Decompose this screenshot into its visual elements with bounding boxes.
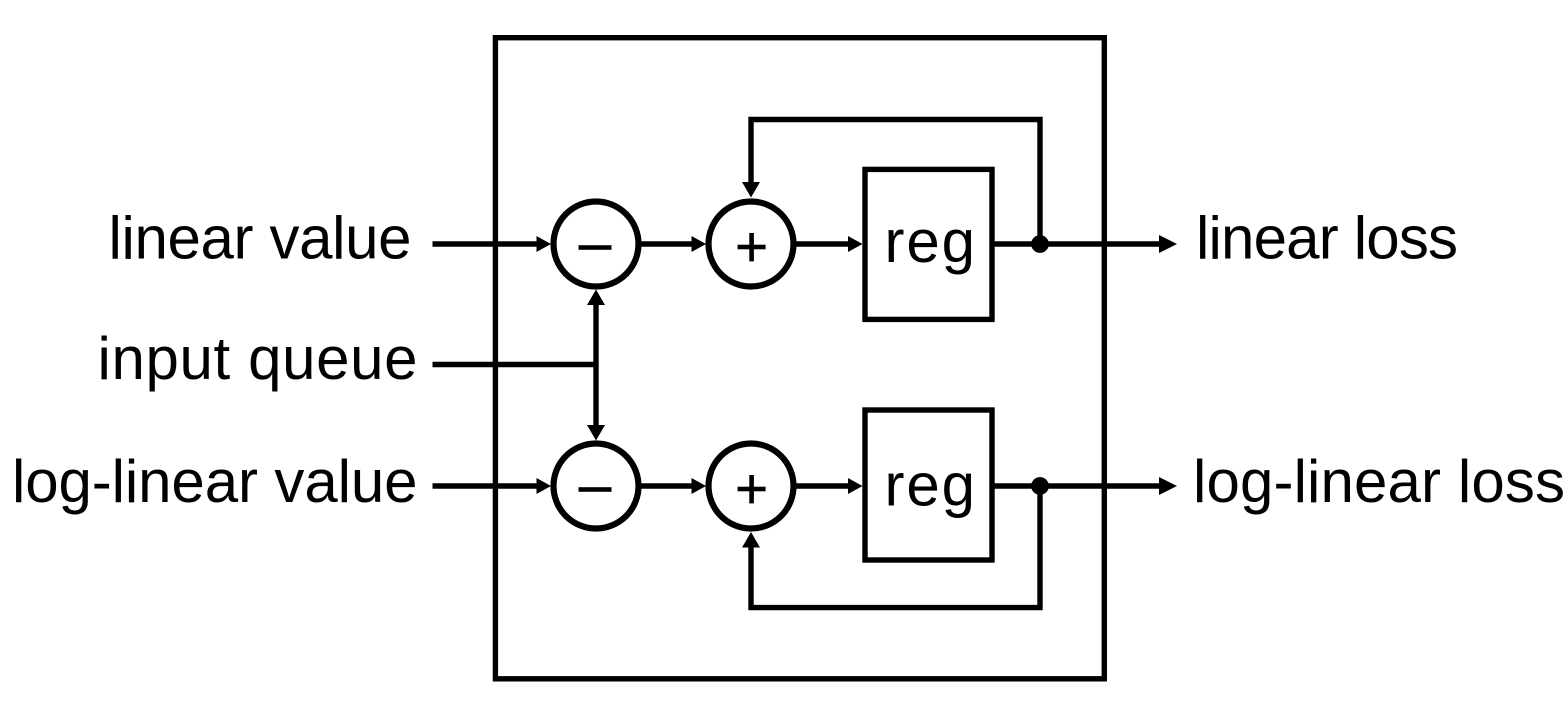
svg-text:linear value: linear value bbox=[109, 205, 412, 272]
arrowhead into bottom adder bbox=[692, 478, 707, 494]
junction node (bottom) bbox=[1031, 477, 1049, 495]
wire: bottom adder to bottom register bbox=[797, 483, 849, 488]
minus sign of U1 bbox=[579, 245, 612, 250]
wire: input queue vertical down bbox=[593, 365, 598, 426]
wire: input queue horizontal bbox=[433, 362, 599, 367]
wire: bottom subtractor to bottom adder bbox=[642, 483, 693, 488]
plus sign of U2 bbox=[738, 233, 766, 261]
arrowhead into top adder bbox=[692, 236, 707, 252]
outer enclosure box bbox=[495, 38, 1104, 679]
junction node (top) bbox=[1031, 235, 1049, 253]
arrowhead into bottom subtractor bbox=[537, 478, 552, 494]
register reg (top) bbox=[865, 169, 992, 319]
svg-text:reg: reg bbox=[885, 208, 976, 275]
wire: top feedback loop bbox=[751, 120, 1040, 245]
arrowhead of top feedback into adder bbox=[742, 182, 760, 198]
arrowhead down into bottom subtractor bbox=[587, 425, 605, 441]
wire: linear value input bbox=[433, 241, 538, 246]
minus sign of U3 bbox=[579, 487, 612, 492]
wire: top register output to linear loss bbox=[992, 241, 1160, 246]
wire: log-linear value input bbox=[433, 483, 538, 488]
arrowhead to log-linear loss bbox=[1159, 477, 1177, 495]
svg-text:reg: reg bbox=[885, 452, 976, 519]
arrowhead up into top subtractor bbox=[587, 290, 605, 306]
arrowhead into top register bbox=[848, 236, 863, 252]
svg-text:input queue: input queue bbox=[98, 325, 418, 392]
wire: top adder to top register bbox=[797, 241, 849, 246]
subtractor U3 (bottom minus circle) bbox=[554, 444, 639, 529]
wire: input queue vertical up bbox=[593, 305, 598, 365]
arrowhead into top subtractor bbox=[537, 236, 552, 252]
wire: top subtractor to top adder bbox=[642, 241, 693, 246]
svg-text:log-linear loss: log-linear loss bbox=[1193, 448, 1565, 515]
svg-text:log-linear value: log-linear value bbox=[12, 448, 418, 515]
adder U4 (bottom plus circle) bbox=[709, 444, 794, 529]
arrowhead of bottom feedback into adder bbox=[742, 532, 760, 548]
arrowhead into bottom register bbox=[848, 478, 863, 494]
adder U2 (top plus circle) bbox=[709, 202, 794, 287]
wire: bottom feedback loop bbox=[751, 486, 1040, 608]
register reg (bottom) bbox=[865, 410, 992, 560]
subtractor U1 (top minus circle) bbox=[554, 202, 639, 287]
arrowhead to linear loss bbox=[1159, 235, 1177, 253]
plus sign of U4 bbox=[738, 475, 766, 503]
wire: bottom register output to log-linear loss bbox=[992, 483, 1160, 488]
svg-text:linear loss: linear loss bbox=[1196, 205, 1458, 272]
